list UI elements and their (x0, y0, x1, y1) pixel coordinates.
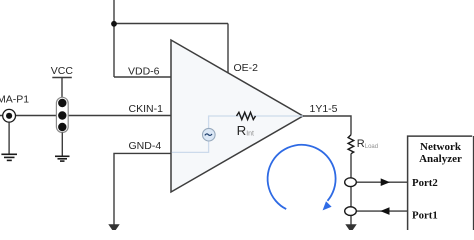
wire SMA to ground (8, 122, 10, 154)
wire OE vertical (227, 24, 229, 74)
wire 1Y1-5 output (303, 116, 351, 135)
connector J2 (to Port2) (345, 178, 357, 187)
wire CKIN-1 net (0, 115, 171, 117)
svg-text:GND-4: GND-4 (129, 140, 162, 152)
svg-text:Analyzer: Analyzer (419, 153, 462, 165)
wire VDD vertical from top (113, 0, 115, 77)
op-amp buffer U1 (171, 40, 303, 192)
ground (SMA) (1, 154, 17, 160)
wire top horizontal to OE (114, 23, 228, 25)
wire R_Load to connector (350, 154, 352, 178)
Network Analyzer box (408, 136, 473, 231)
svg-text:VCC: VCC (51, 65, 74, 77)
wire GND-4 pin (114, 153, 171, 225)
resistor R_Int (237, 112, 256, 119)
wire VDD-6 pin (114, 76, 171, 78)
wire Port1 (356, 210, 407, 212)
svg-text:VDD-6: VDD-6 (128, 66, 160, 78)
source V1 (sine) (203, 128, 216, 141)
power VCC symbol (51, 65, 74, 98)
arrow into Port2 (381, 178, 390, 186)
svg-text:OE-2: OE-2 (234, 62, 259, 74)
svg-text:CKIN-1: CKIN-1 (129, 103, 164, 115)
ground arrow (load net) (345, 224, 356, 232)
rotation arrow (blue) (268, 145, 336, 211)
ground arrow (GND-4 net) (108, 224, 119, 232)
wire Port2 (356, 181, 407, 183)
arrow out of Port1 (380, 207, 389, 215)
svg-text:Port1: Port1 (412, 210, 438, 222)
svg-text:SMA-P1: SMA-P1 (0, 94, 29, 106)
wire connector2 to ground arrow (350, 216, 352, 226)
connector J1 (to Port1) (345, 207, 357, 216)
svg-text:Port2: Port2 (412, 177, 438, 189)
svg-text:Network: Network (420, 141, 462, 153)
wire between connectors (350, 187, 352, 207)
svg-text:1Y1-5: 1Y1-5 (310, 103, 338, 115)
header J3 (3-pin) (56, 97, 68, 132)
resistor R_Load (348, 135, 354, 154)
node junction dot (111, 21, 117, 27)
ground (header) (55, 156, 70, 161)
wire internal pale net (172, 116, 303, 152)
connector SMA-P1 (3, 109, 16, 122)
wire header to ground (61, 133, 63, 157)
